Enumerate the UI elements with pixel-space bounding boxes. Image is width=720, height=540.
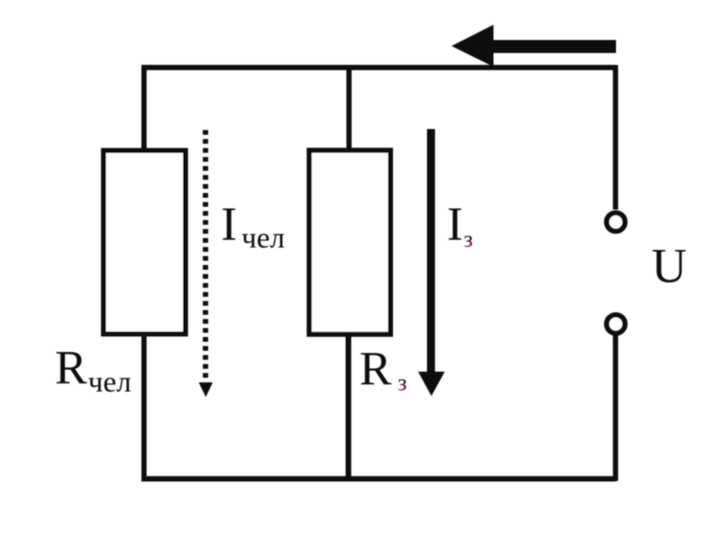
svg-text:I: I xyxy=(447,198,463,251)
wire right branch top xyxy=(613,65,618,210)
wire middle branch bottom xyxy=(346,334,352,481)
terminal lower xyxy=(607,315,625,333)
label Iз xyxy=(447,198,473,253)
svg-text:чел: чел xyxy=(242,222,285,255)
wire bottom horizontal bus xyxy=(142,476,616,481)
wire middle branch top xyxy=(346,65,351,152)
resistor Rчел body xyxy=(104,151,186,335)
current arrow Iз (solid, downward) xyxy=(418,129,445,396)
wire left branch bottom xyxy=(141,334,146,481)
svg-text:R: R xyxy=(360,343,392,396)
svg-text:з: з xyxy=(464,227,473,253)
svg-text:U: U xyxy=(652,238,687,293)
label Rчел xyxy=(55,342,131,399)
label Rз xyxy=(360,343,407,397)
current flow arrow (thick, pointing left) xyxy=(452,25,617,67)
label Iчел xyxy=(221,198,285,255)
wire top horizontal bus xyxy=(142,65,616,70)
wire right branch bottom xyxy=(613,333,618,481)
wire left branch top xyxy=(141,65,146,152)
resistor Rз body xyxy=(309,150,390,334)
svg-text:чел: чел xyxy=(88,365,131,398)
terminal upper xyxy=(607,213,625,231)
svg-text:I: I xyxy=(221,198,237,251)
current arrow Iчел (dotted, downward) xyxy=(199,130,213,397)
svg-text:R: R xyxy=(55,342,87,395)
svg-text:з: з xyxy=(398,371,407,397)
